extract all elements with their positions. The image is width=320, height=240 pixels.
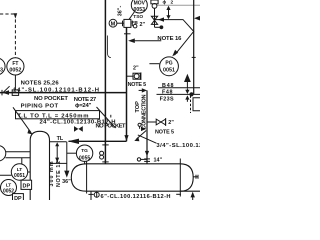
wire bridle mid	[6, 158, 31, 164]
instrument 0053 (clipped left)	[0, 58, 5, 75]
fitting flanges riser B	[144, 158, 150, 160]
arrow down riser B	[145, 151, 149, 157]
pipe gray stub top right	[157, 4, 200, 6]
wire bridle top	[6, 151, 31, 153]
svg-text:ϕ=24”: ϕ=24”	[75, 103, 92, 109]
fitting tick below MOV valve	[124, 33, 131, 35]
svg-text:2”: 2”	[140, 22, 146, 28]
fitting bracket open-right	[193, 98, 200, 111]
wire header into riser A	[69, 140, 127, 142]
valve MOV gate (square)	[124, 19, 131, 27]
instrument PG0051	[160, 57, 179, 76]
svg-text:TOP: TOP	[135, 101, 141, 113]
arrow flow left pipe1	[2, 90, 9, 95]
leader NOTE27	[97, 107, 116, 128]
instrument MOV0053 bubble	[131, 0, 147, 13]
svg-text:6”-CL.100.12116-B12-H: 6”-CL.100.12116-B12-H	[101, 194, 171, 200]
svg-text:PIPING POT: PIPING POT	[21, 103, 59, 109]
arrow flow left into branch	[158, 17, 164, 21]
valve 2in NOTE5 lower	[147, 121, 156, 123]
equipment piping pot	[30, 131, 49, 200]
valve 2in NOTE5 upper on vertical B	[127, 75, 134, 77]
instrument FT0052	[7, 58, 24, 75]
svg-text:0052: 0052	[9, 68, 21, 74]
svg-text:PG: PG	[165, 60, 172, 66]
wire M to valve	[117, 22, 124, 24]
svg-text:FB: FB	[132, 20, 139, 26]
svg-text:36”-: 36”-	[118, 6, 124, 17]
wire branch vertical	[154, 8, 156, 27]
instrument LT0052	[1, 180, 17, 196]
pipe right vertical	[193, 0, 195, 94]
svg-text:0051: 0051	[163, 67, 175, 73]
wire vessel seam right	[179, 159, 181, 197]
wire NOTE16 line	[155, 20, 194, 56]
wire PG left stub	[149, 63, 159, 65]
instrument LT0051	[11, 164, 27, 180]
equipment vessel horizontal drum	[87, 164, 181, 191]
svg-text:0053: 0053	[134, 7, 146, 13]
arrow into PG	[172, 50, 178, 57]
valve closed (filled) on pipe2	[74, 126, 83, 132]
wire tiny tick	[110, 115, 112, 118]
wire dashed jog right	[190, 96, 192, 114]
box TL-to-TL dimension	[16, 111, 100, 119]
node main vertical B from MOV	[126, 27, 128, 141]
svg-text:0051: 0051	[14, 173, 25, 179]
wire dashed signal horizontal top-left	[0, 13, 16, 15]
svg-text:300 mm: 300 mm	[49, 161, 55, 186]
svg-text:ϕ: ϕ	[163, 0, 167, 5]
dimension 300mm vertical	[57, 142, 67, 171]
wire leader diag pipe1 end	[3, 86, 9, 92]
fitting circle stub riser B	[137, 158, 140, 161]
fitting DP box 1	[21, 180, 32, 189]
fitting flanges riser A	[102, 144, 108, 146]
arrow right into riser B	[141, 127, 146, 131]
svg-text:MOV: MOV	[134, 1, 146, 7]
svg-text:NOTE 12: NOTE 12	[56, 161, 62, 187]
svg-text:NOTE 5: NOTE 5	[155, 129, 174, 135]
svg-text:14”: 14”	[154, 158, 163, 164]
svg-text:DP: DP	[23, 184, 31, 190]
svg-text:T.L TO T.L = 2450mm: T.L TO T.L = 2450mm	[18, 113, 89, 119]
arrow up bottom right	[192, 197, 194, 200]
fitting DP box 2	[13, 194, 24, 202]
pipe 24in line2	[37, 129, 144, 131]
svg-text:F23S: F23S	[160, 97, 174, 103]
node junction dot right	[189, 92, 193, 96]
pot leader arrow	[13, 107, 31, 132]
svg-text:M: M	[111, 21, 116, 27]
svg-text:3/4”-SL.100.12: 3/4”-SL.100.12	[156, 143, 200, 149]
pipe 14in line1	[0, 92, 127, 94]
arrow from right edge	[196, 17, 200, 19]
svg-text:2”: 2”	[133, 65, 139, 71]
instrument M motor	[109, 19, 117, 27]
arrow right riser B top	[142, 88, 147, 92]
fitting right dome nozzle	[193, 176, 198, 178]
fitting tick bottom right seam	[176, 193, 181, 195]
wire MOV bubble to valve	[129, 12, 134, 20]
wire dashed signal vertical to FT	[14, 14, 16, 58]
svg-text:NO POCKET: NO POCKET	[96, 124, 126, 130]
label 3/4in-SL	[138, 135, 157, 143]
arrow spec-break up big	[186, 81, 188, 88]
svg-text:NOTE 27: NOTE 27	[74, 97, 97, 103]
svg-text:TG: TG	[81, 148, 88, 154]
pipe riser B	[146, 90, 148, 163]
arrow flow left on return	[128, 38, 135, 43]
svg-text:2”: 2”	[168, 120, 174, 126]
wire TL line	[50, 141, 67, 143]
svg-text:36”: 36”	[62, 179, 71, 185]
svg-text:NOTE 5: NOTE 5	[128, 82, 147, 88]
arrow signal-corner down	[14, 13, 18, 18]
svg-text:3: 3	[0, 68, 3, 74]
svg-text:NOTE 16: NOTE 16	[157, 36, 182, 42]
wire stub into riser B top	[139, 89, 143, 91]
svg-text:TSO: TSO	[133, 14, 143, 20]
wire vessel seam left	[86, 161, 88, 194]
fitting mini circle on pipe2	[138, 123, 141, 126]
arrow down on vertical B	[124, 135, 128, 141]
pipe 6in bottom line	[180, 190, 200, 192]
fitting circle-cross	[94, 192, 99, 197]
arrow spec-break small down	[186, 88, 188, 90]
wire TG stub	[84, 161, 86, 164]
node main vertical A	[104, 0, 106, 164]
svg-text:FT: FT	[12, 61, 18, 67]
dimension double arrow top right	[168, 7, 170, 18]
arrow flow left header	[68, 139, 79, 144]
fitting FB circle	[133, 24, 137, 28]
svg-text:0055: 0055	[79, 156, 90, 162]
svg-text:NOTES 25,26: NOTES 25,26	[21, 81, 60, 87]
wire return line with arrow at y40.7	[132, 40, 161, 42]
wire hook off vertical A	[108, 36, 111, 58]
wire FT tap down	[14, 75, 16, 90]
instrument TG0055	[76, 145, 92, 161]
fitting tick on right vertical	[192, 56, 196, 58]
svg-text:NO POCKET: NO POCKET	[34, 96, 68, 102]
svg-text:14”-SL.100.12101-B12-H: 14”-SL.100.12101-B12-H	[13, 87, 99, 93]
fitting orifice box on pipe1	[12, 90, 18, 96]
node plug dot	[160, 25, 164, 29]
svg-text:2: 2	[171, 0, 174, 5]
wire LT stub left	[0, 172, 30, 175]
valve check on branch	[151, 16, 157, 20]
fitting bottom-left nozzle	[90, 191, 92, 200]
wire stub with plug dot	[155, 26, 163, 28]
fitting square+circle top branch	[151, 0, 158, 4]
svg-text:DP: DP	[14, 196, 22, 200]
svg-text:LT: LT	[6, 182, 12, 188]
arrow spec-break small up	[186, 99, 188, 102]
instrument circle C clipped	[0, 146, 6, 162]
fitting spectacle blind riser A	[100, 151, 104, 155]
leader TOP CONNECTION	[137, 131, 147, 140]
